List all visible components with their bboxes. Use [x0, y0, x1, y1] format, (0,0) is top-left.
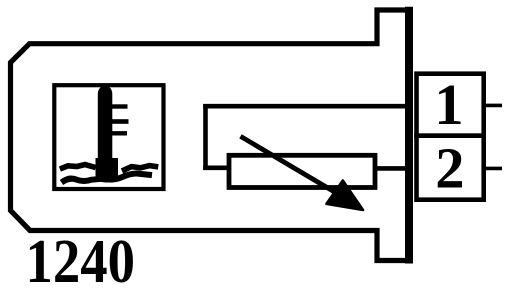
pin box 1 [417, 74, 484, 136]
thermometer tick 2 [111, 119, 129, 124]
pin box 2 [417, 136, 484, 200]
pin 2 stub wire [483, 167, 502, 171]
wire: pin1 to resistor loop, left vertical [203, 104, 208, 170]
wire: short horizontal into resistor left terminal [203, 166, 231, 171]
coolant wave upper-left [63, 165, 94, 169]
thermometer tick 1 [111, 104, 128, 108]
coolant temperature icon box [54, 85, 163, 189]
variable-resistor arrowhead [327, 181, 364, 211]
svg-text:1: 1 [434, 72, 463, 137]
resistor (thermistor) body [229, 155, 375, 187]
wire: top horizontal to connector bar (pin 1) [203, 104, 407, 109]
thermometer tick 3 [111, 131, 127, 135]
connector bar (thick right edge of tab) [405, 7, 413, 264]
variable-resistor arrow shaft [241, 136, 339, 194]
svg-text:2: 2 [435, 135, 464, 200]
thermometer stem [98, 84, 113, 170]
pin 1 stub wire [483, 104, 502, 108]
coolant wave upper-right [125, 166, 156, 170]
thermometer bulb base [96, 158, 119, 183]
coolant wave lower [64, 174, 149, 182]
sensor body outline (component 1240 housing with connector tab) [11, 10, 410, 261]
wire: resistor right terminal to connector bar (pin 2) [373, 166, 407, 171]
svg-text:1240: 1240 [26, 228, 136, 289]
